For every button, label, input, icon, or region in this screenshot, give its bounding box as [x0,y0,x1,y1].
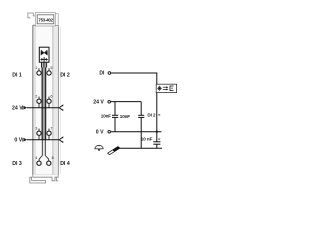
0V rail [111,131,162,133]
svg-text:10nF: 10nF [101,114,111,119]
terminal 6 [47,97,51,108]
DI terminal circle [108,72,111,75]
module bottom edge [33,174,58,176]
DI wire [111,73,157,84]
opto light arrows [163,86,169,90]
svg-text:DI: DI [99,71,105,77]
svg-text:5: 5 [50,66,52,70]
terminal 7 [47,129,51,140]
tick after DI 2 [158,114,160,115]
capacitor C3 plates [153,142,160,148]
opposed arrows symbol [40,57,48,62]
24V bus fork [59,105,63,110]
terminal 3 [37,129,41,140]
0V feed arrow [22,138,27,142]
terminal 4 [37,161,41,165]
terminal 5 [47,68,51,75]
svg-text:DI 2: DI 2 [60,73,70,79]
module inner seam [52,26,54,175]
terminal 1 [37,68,41,75]
tick after 10 nF [158,139,160,140]
svg-text:DI 1: DI 1 [12,73,22,79]
svg-text:0 V: 0 V [14,138,22,144]
svg-text:7: 7 [50,126,52,130]
internal wire band [41,68,47,140]
svg-text:753-402: 753-402 [38,18,53,23]
svg-text:24 V: 24 V [93,100,104,106]
foot right lip [56,177,58,181]
capacitor C2 10nF [138,102,144,149]
svg-text:8: 8 [52,156,54,160]
svg-text:6: 6 [50,94,52,98]
chassis flag symbol [108,147,120,155]
svg-text:1: 1 [35,66,37,70]
isolation box U2 [156,84,176,92]
functional earth symbol [94,145,103,151]
svg-text:3: 3 [35,126,37,130]
wire channel lower shading [43,140,45,156]
24V feed arrow [22,106,27,110]
svg-text:DI 2: DI 2 [147,113,156,118]
icon box U1 [39,47,49,62]
24V terminal circle [108,100,111,103]
butterfly symbol [41,50,48,56]
0V terminal circle [108,130,111,133]
module body outline [33,25,58,175]
DIN rail foot profile [33,175,58,181]
wire to DI3 terminal [39,140,42,161]
module face shading [53,26,58,175]
0V bus fork [59,137,63,142]
DIN rail clamp hook [30,177,46,183]
svg-text:0 V: 0 V [96,130,104,136]
opto receiver bracket [170,86,174,91]
terminal 2 [37,97,41,108]
svg-text:10nF: 10nF [120,114,130,119]
svg-text:DI 3: DI 3 [12,161,22,167]
label box [35,13,55,27]
module right second contour [59,27,61,174]
0V bus [27,139,59,141]
capacitor C1 10nF [112,102,118,132]
24V bus [27,107,59,109]
opto LED star [157,86,162,91]
wire to DI4 terminal [45,140,48,161]
junction node [156,131,158,133]
latch tab [28,13,36,25]
svg-text:DI 4: DI 4 [60,161,70,167]
terminal 8 [47,161,51,165]
svg-text:24 V: 24 V [12,106,23,112]
svg-text:10 nF: 10 nF [141,136,153,141]
terminal numbers [35,66,53,160]
svg-text:2: 2 [35,94,37,98]
ribbon hatch [42,62,47,67]
main vertical wire [156,93,158,142]
bus contact tab [55,14,58,25]
24V rail [111,101,141,103]
svg-text:4: 4 [35,156,37,160]
ground rail [120,147,163,149]
